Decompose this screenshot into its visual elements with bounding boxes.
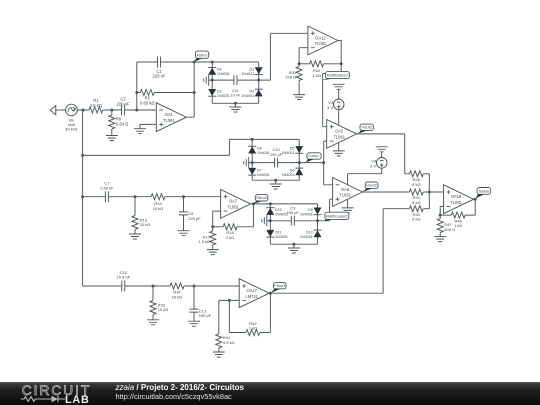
input terminal: [50, 106, 56, 115]
svg-text:5.84 Ω: 5.84 Ω: [116, 121, 128, 126]
wire C2 to OA1 inverting input: [125, 109, 157, 111]
wire OA7 output to bridge3: [251, 203, 271, 205]
svg-text:Filtro2: Filtro2: [256, 195, 267, 200]
ground below R0: [106, 136, 118, 141]
bridge1 right rail: [258, 62, 260, 103]
svg-text:LM741: LM741: [245, 294, 258, 299]
svg-text:OA7: OA7: [229, 199, 238, 204]
wire ground to V9: [381, 152, 383, 158]
svg-text:10 kΩ: 10 kΩ: [153, 206, 164, 211]
diode D9 1N4001: [300, 208, 322, 217]
svg-text:1N4001: 1N4001: [217, 94, 230, 98]
svg-text:1.59 nF: 1.59 nF: [100, 185, 114, 190]
svg-text:15.9 nF: 15.9 nF: [117, 275, 131, 280]
svg-text:Comp.: Comp.: [309, 153, 320, 158]
junction bridge2 mid-right: [298, 161, 301, 164]
svg-text:1N4001: 1N4001: [257, 151, 270, 155]
wire input tap to bridge2: [83, 139, 253, 155]
capacitor C13 159 pF: [190, 286, 212, 321]
ground below R13: [129, 234, 141, 239]
junction bridge2 bottom-center: [274, 179, 277, 182]
node input tap: [81, 154, 84, 157]
svg-text:1N4001: 1N4001: [275, 235, 288, 239]
ground below bridge3: [288, 248, 300, 253]
resistor R18 1 k&#937;: [213, 204, 254, 240]
node A (R0 junction): [110, 109, 113, 112]
svg-text:4.9 kΩ: 4.9 kΩ: [223, 340, 235, 345]
node Comp net junction: [322, 161, 325, 164]
svg-text:220 nF: 220 nF: [117, 101, 130, 106]
capacitor C9 100 uF: [287, 205, 300, 225]
node OA7 output feedback: [252, 202, 255, 205]
svg-text:OA1: OA1: [165, 112, 174, 117]
wire OA6 non-inverting input to Retificador2 net: [318, 199, 333, 221]
wire Comp net: [299, 162, 324, 164]
bridge1 bottom rail: [212, 102, 259, 104]
ground above V3: [333, 84, 345, 89]
wire C7 to R14: [108, 196, 151, 198]
resistor R17 1.3 k&#937;: [198, 227, 215, 250]
svg-text:3.5 kΩ: 3.5 kΩ: [90, 103, 102, 108]
svg-text:1N4001: 1N4001: [300, 235, 313, 239]
ground below R47: [434, 237, 446, 242]
summing node rail: [428, 174, 430, 209]
bridge2 bottom rail: [252, 179, 299, 181]
wire Retificador1 net to OA2 +: [323, 64, 342, 127]
wire Comp net down to OA6 -: [324, 163, 333, 185]
wire bridge1 to OA12 + input: [259, 33, 308, 80]
svg-text:1 kΩ: 1 kΩ: [226, 235, 234, 240]
node C13 junction: [193, 285, 196, 288]
svg-text:D9: D9: [308, 208, 313, 212]
node input tap 2: [81, 195, 84, 198]
svg-text:220 pF: 220 pF: [188, 216, 201, 221]
junction bridge1 bottom-center: [234, 102, 237, 105]
svg-text:D11: D11: [275, 230, 282, 234]
svg-text:Retificador1: Retificador1: [327, 74, 349, 78]
label Vout2: [363, 182, 378, 192]
svg-text:D8: D8: [257, 147, 262, 151]
svg-text:OA12: OA12: [315, 35, 326, 40]
svg-text:D2: D2: [249, 89, 254, 93]
svg-text:TL081: TL081: [339, 193, 351, 198]
source Vin (sine 30 kHz): [65, 104, 77, 131]
ground below C13: [188, 321, 200, 326]
node OA17 feedback junction: [228, 299, 231, 302]
svg-text:100 µF: 100 µF: [270, 152, 283, 157]
wire node B up to C1/R2 branch: [136, 62, 138, 110]
junction bridge1 mid-left: [211, 79, 214, 82]
wire R34 to OA17 + input: [184, 285, 239, 287]
resistor R0 5.84 &#937;: [109, 110, 129, 136]
wire OA17 inverting input: [219, 299, 239, 301]
svg-text:220 nF: 220 nF: [152, 74, 165, 79]
resistor R42 1 k&#937;: [229, 293, 270, 335]
svg-text:8 kΩ: 8 kΩ: [412, 182, 420, 187]
svg-text:LAB: LAB: [65, 394, 90, 405]
ground above V9: [376, 147, 388, 152]
svg-text:1 kΩ: 1 kΩ: [249, 326, 257, 331]
op-amp OA7 TL081: [221, 190, 251, 219]
junction bridge2 top-left: [251, 138, 254, 141]
wire OA18 output: [474, 198, 476, 200]
label Comp.: [306, 153, 321, 163]
svg-text:Retificador2: Retificador2: [326, 214, 348, 218]
bridge3 middle rail left: [270, 220, 291, 222]
junction bridge1 top-left: [211, 61, 214, 64]
svg-text:OA18: OA18: [451, 194, 462, 199]
svg-text:1.3 kΩ: 1.3 kΩ: [198, 239, 210, 244]
junction bridge1 mid-right: [257, 79, 260, 82]
bridge1 top rail: [212, 61, 259, 63]
label Saida: [476, 188, 491, 199]
svg-text:D4: D4: [217, 68, 222, 72]
svg-text:10 kΩ: 10 kΩ: [158, 307, 169, 312]
svg-text:D7: D7: [257, 168, 262, 172]
ground below R31: [293, 95, 305, 100]
ground below bridge1: [229, 107, 241, 112]
bridge3 right rail: [317, 204, 319, 244]
resistor R31 226 &#937;: [285, 64, 302, 95]
svg-text:226 Ω: 226 Ω: [285, 75, 296, 80]
wire OA12 inverting input: [299, 48, 308, 64]
svg-text:5 V: 5 V: [370, 163, 376, 168]
wire OA17 output Filtro3 to R43: [269, 209, 409, 294]
wire sum node to OA18 +: [429, 191, 443, 193]
wire C12 to R34: [125, 285, 170, 287]
OA2 V- pin stub: [338, 143, 340, 151]
wire input tap to C7: [83, 196, 106, 198]
svg-text:TL081: TL081: [333, 135, 345, 140]
resistor R13 10 k&#937;: [132, 197, 150, 234]
svg-text:10 kΩ: 10 kΩ: [172, 295, 183, 300]
node R47/R48 junction: [439, 214, 442, 217]
node R31/R32 junction: [298, 62, 301, 65]
ground at OA1 + input: [134, 129, 146, 134]
svg-text:1N4001: 1N4001: [300, 212, 313, 216]
svg-text:1N4001: 1N4001: [257, 173, 270, 177]
node B (C1/R2 junction): [135, 109, 138, 112]
capacitor C1 220 nF (feedback): [152, 57, 165, 79]
node input junction: [82, 109, 85, 112]
svg-text:1N4001: 1N4001: [241, 94, 254, 98]
capacitor C12 15.9 nF: [117, 270, 131, 292]
bridge3 middle rail right: [294, 220, 317, 222]
resistor R1 3.5 k&#937;: [89, 98, 103, 113]
wire OA2 inverting input: [324, 141, 327, 163]
svg-text:TL081: TL081: [450, 200, 462, 205]
capacitor C7 1.59 nF: [100, 181, 114, 203]
svg-text:D6: D6: [290, 168, 295, 172]
junction bridge3 bottom-center: [292, 243, 295, 246]
wire OA1 non-inverting input to ground: [140, 124, 156, 128]
svg-text:D12: D12: [275, 208, 282, 212]
wire terminal to Vin: [56, 109, 66, 111]
op-amp OA1 TL081: [156, 103, 186, 132]
wire OA6 output Vout2 to R44: [363, 191, 410, 193]
earth reference at bridge3 left: [262, 215, 271, 226]
svg-text:10 kΩ: 10 kΩ: [140, 222, 151, 227]
svg-text:TL081: TL081: [227, 205, 239, 210]
diode D6 1N4001: [282, 168, 304, 177]
node R2 to output riser: [193, 91, 196, 94]
svg-text:Vout1: Vout1: [361, 125, 372, 130]
diode D1 1N4001: [241, 67, 262, 76]
resistor R32 1 k&#937;: [299, 61, 341, 78]
wire Vin to R1: [77, 109, 89, 111]
ground below C8: [178, 231, 190, 236]
svg-text:Saida: Saida: [479, 188, 490, 193]
node R33 junction: [152, 285, 155, 288]
source V9 5 V: [370, 158, 387, 169]
label Filtro1: [194, 51, 209, 62]
op-amp OA18 TL081: [444, 185, 474, 214]
svg-text:9.65 kΩ: 9.65 kΩ: [140, 100, 155, 105]
svg-text:zzaia / Projeto 2- 2016/2- Cir: zzaia / Projeto 2- 2016/2- Circuitos: [115, 383, 245, 392]
node R2 branch: [135, 91, 138, 94]
resistor R41 4.9 k&#937;: [216, 300, 235, 352]
bridge1 ground stub: [234, 103, 236, 107]
CircuitLab logo: resistor-diode squiggle: [21, 397, 52, 402]
bridge3 ground stub: [293, 244, 295, 248]
wire OA2 output Vout1: [357, 134, 410, 174]
node OA1 output riser top: [193, 61, 196, 64]
svg-text:10 nF: 10 nF: [230, 93, 241, 98]
svg-text:1N4001: 1N4001: [217, 72, 230, 76]
resistor R47 500 &#937;: [437, 215, 455, 237]
capacitor C11 10 nF: [230, 75, 241, 97]
label Filtro3: [271, 282, 286, 293]
wire input to C12: [83, 285, 122, 287]
bridge3 top rail: [270, 203, 317, 205]
svg-text:1N4001: 1N4001: [282, 151, 295, 155]
wire R46 to sum node: [423, 173, 429, 175]
resistor R48 1 k&#937;: [440, 199, 475, 228]
wire OA1 output riser: [186, 62, 194, 117]
op-amp OA6 TL081: [333, 178, 363, 207]
OA6 V- pin stub: [347, 199, 349, 208]
ground below R17: [207, 250, 219, 255]
svg-text:8 kΩ: 8 kΩ: [412, 217, 420, 222]
ground below R33: [147, 320, 159, 325]
diode D3 1N4001: [208, 89, 230, 98]
node OA18 output: [474, 198, 477, 201]
svg-text:D1: D1: [249, 68, 254, 72]
svg-text:8 kΩ: 8 kΩ: [412, 200, 420, 205]
wire R14 to OA7 + input: [165, 196, 221, 198]
svg-text:1 kΩ: 1 kΩ: [454, 223, 462, 228]
diode D11 1N4001: [266, 230, 288, 239]
wire R44 to sum node: [423, 191, 429, 193]
svg-text:Filtro3: Filtro3: [274, 283, 285, 288]
svg-text:D10: D10: [306, 230, 313, 234]
ground below bridge2: [270, 184, 282, 189]
node R17/R18 junction: [211, 225, 214, 228]
svg-text:1N4001: 1N4001: [282, 173, 295, 177]
resistor R2 9.65 k&#937;: [137, 90, 194, 106]
junction bridge3 top-left: [269, 202, 272, 205]
svg-text:TL081: TL081: [315, 41, 327, 46]
junction bridge3 mid-right: [316, 219, 319, 222]
svg-text:3 V: 3 V: [327, 105, 333, 110]
bridge2 left rail: [251, 139, 253, 180]
op-amp OA17 LM741: [239, 279, 269, 308]
bridge3 bottom rail: [270, 243, 317, 245]
bridge3 left rail: [269, 204, 271, 244]
bridge2 top rail: [252, 138, 299, 140]
svg-text:1N4001: 1N4001: [241, 72, 254, 76]
capacitor C10 100 uF: [270, 147, 283, 167]
wire input down-left rail: [82, 110, 84, 286]
svg-text:30 kHz: 30 kHz: [65, 127, 77, 132]
svg-text:OA17: OA17: [246, 288, 257, 293]
bridge1 middle rail left: [212, 79, 234, 81]
label Retificador2: [324, 212, 349, 221]
bridge2 right rail: [298, 139, 300, 180]
svg-text:1 kΩ: 1 kΩ: [312, 73, 320, 78]
wire R43 to sum node: [423, 208, 429, 210]
diode D12 1N4001: [266, 208, 288, 217]
label Retificador1: [322, 71, 349, 80]
svg-text:100 µF: 100 µF: [287, 210, 300, 215]
resistor R34 10 k&#937;: [170, 283, 184, 300]
label Vout1: [358, 124, 374, 134]
svg-text:Vout2: Vout2: [366, 182, 377, 187]
ground below OA2: [333, 151, 345, 156]
bridge1 middle rail right: [237, 79, 259, 81]
resistor R14 10 k&#937;: [151, 194, 165, 211]
svg-text:TL081: TL081: [163, 118, 175, 123]
svg-text:OA6: OA6: [341, 187, 350, 192]
source V3 3 V: [327, 99, 344, 110]
node OA17 output: [269, 292, 272, 295]
resistor R44 8 k&#937;: [409, 189, 423, 205]
diode D4 1N4001: [208, 68, 230, 77]
node R13 junction: [134, 195, 137, 198]
wire V3 to OA2 V+ pin: [338, 110, 340, 126]
bridge2 ground stub: [275, 180, 277, 184]
diode D8 1N4001: [248, 146, 270, 155]
svg-text:Filtro1: Filtro1: [197, 52, 208, 57]
svg-text:D5: D5: [290, 147, 295, 151]
diode D5 1N4001: [282, 146, 304, 155]
diode D2 1N4001: [241, 89, 262, 98]
node C8 junction: [182, 195, 185, 198]
svg-text:http://circuitlab.com/c5czqv55: http://circuitlab.com/c5czqv55vk8ac: [116, 392, 233, 401]
wire C1 to bridge1: [161, 61, 213, 63]
wire OA18 inverting input: [440, 206, 443, 215]
svg-text:OA2: OA2: [335, 129, 344, 134]
earth reference at bridge2 left: [244, 157, 253, 168]
wire node B to C1: [137, 61, 158, 63]
resistor R33 10 k&#937;: [150, 286, 168, 320]
svg-text:159 pF: 159 pF: [199, 313, 212, 318]
bridge2 middle rail right: [278, 162, 300, 164]
wire R1 to C2: [103, 109, 122, 111]
wire OA7 inverting input: [213, 211, 221, 227]
junction bridge2 mid-left: [251, 161, 254, 164]
junction bridge3 mid-left: [269, 219, 272, 222]
diode D7 1N4001: [248, 168, 270, 177]
wire V9 to OA6 V+ pin: [348, 168, 382, 185]
wire OA12 output: [338, 41, 341, 64]
label Filtro2: [254, 195, 268, 204]
ground below OA6: [342, 208, 354, 213]
resistor R43 8 k&#937;: [409, 206, 423, 222]
capacitor C2 220 nF: [117, 97, 130, 116]
earth reference at bridge1 left: [204, 75, 213, 86]
wire ground to V3: [338, 89, 340, 99]
diode D10 1N4001: [300, 230, 322, 239]
op-amp OA12 TL081: [308, 26, 338, 55]
bridge2 middle rail left: [252, 162, 274, 164]
svg-text:D3: D3: [217, 89, 222, 93]
bridge1 left rail: [211, 62, 213, 103]
capacitor C8 220 pF: [179, 197, 201, 231]
op-amp OA2 TL081: [327, 120, 357, 149]
ground below R41: [213, 352, 225, 357]
node OA12 output feedback: [340, 62, 343, 65]
resistor R46 8 k&#937;: [409, 171, 423, 187]
node summing junction: [428, 191, 431, 194]
